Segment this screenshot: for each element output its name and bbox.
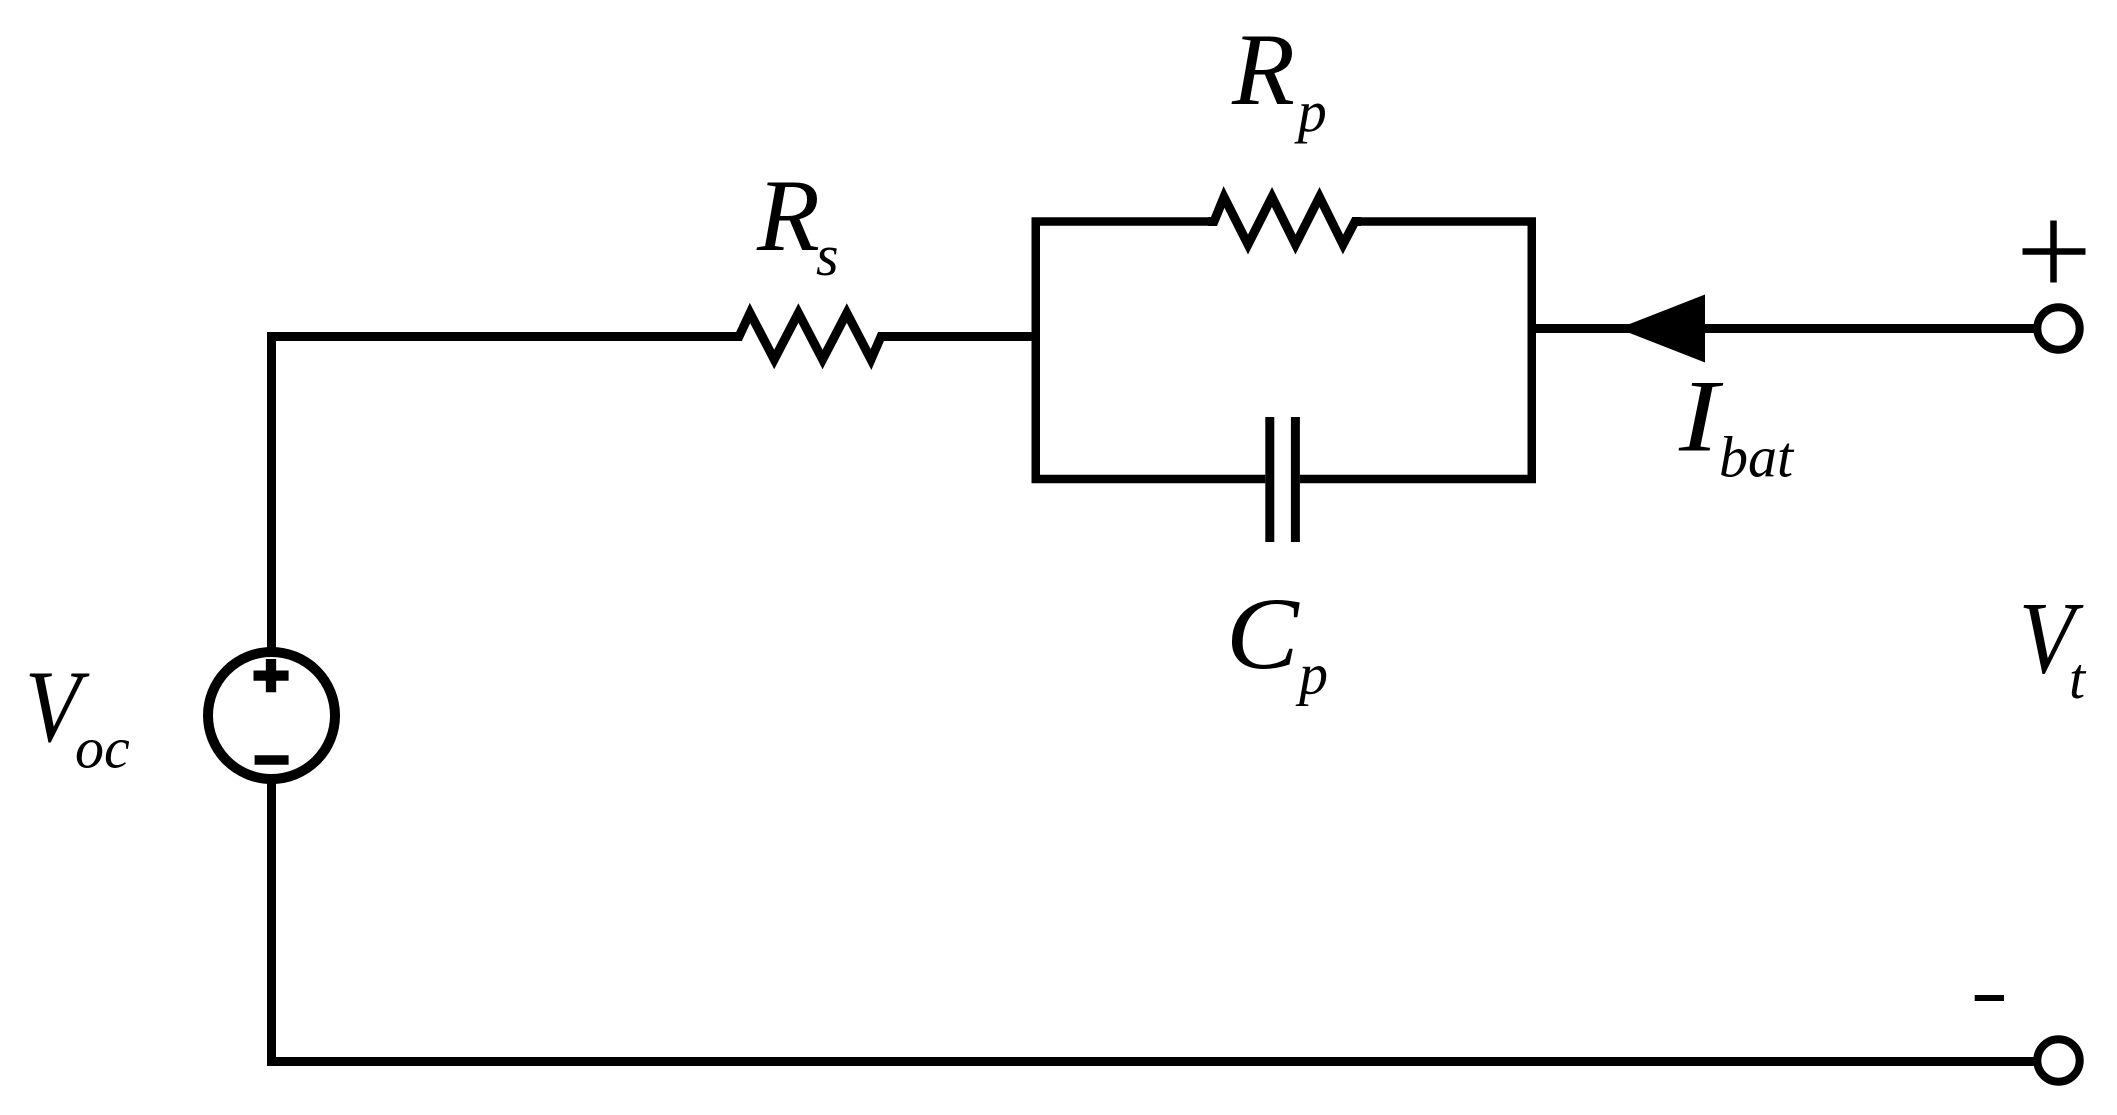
wire: parallel block to positive terminal bbox=[1532, 324, 2034, 333]
node: parallel block right frame bbox=[1300, 222, 1532, 480]
resistor R_p bbox=[1208, 197, 1361, 245]
V_oc plus polarity mark bbox=[254, 659, 289, 692]
svg-text:R: R bbox=[756, 159, 820, 273]
V_oc minus polarity mark bbox=[255, 755, 289, 764]
resistor R_s bbox=[733, 313, 887, 360]
svg-text:oc: oc bbox=[75, 716, 130, 781]
label I_bat bbox=[1678, 360, 1795, 490]
terminal: negative bbox=[2037, 1039, 2079, 1081]
svg-text:bat: bat bbox=[1719, 425, 1795, 490]
label V_oc bbox=[25, 650, 130, 780]
svg-text:C: C bbox=[1226, 576, 1300, 691]
terminal: positive bbox=[2037, 307, 2079, 349]
svg-text:R: R bbox=[1231, 13, 1295, 127]
minus sign bbox=[1975, 995, 2004, 1001]
node: parallel block left frame bbox=[1036, 222, 1266, 480]
svg-text:I: I bbox=[1678, 360, 1724, 474]
wire: left vertical + top horizontal to Rs bbox=[272, 337, 740, 653]
svg-text:t: t bbox=[2069, 646, 2087, 711]
current arrow I_bat bbox=[1618, 295, 1705, 363]
svg-text:p: p bbox=[1295, 642, 1328, 707]
svg-text:p: p bbox=[1294, 79, 1327, 144]
wire: Rs to parallel block bbox=[881, 332, 1036, 341]
plus sign bbox=[2023, 221, 2086, 283]
label R_s bbox=[756, 159, 839, 288]
label V_t bbox=[2019, 582, 2087, 711]
svg-text:s: s bbox=[816, 223, 839, 288]
label R_p bbox=[1231, 13, 1327, 144]
label C_p bbox=[1226, 576, 1328, 707]
voltage source V_oc circle bbox=[208, 652, 335, 779]
capacitor C_p plates bbox=[1270, 417, 1296, 542]
wire: source bottom and bottom return bbox=[272, 779, 2035, 1062]
